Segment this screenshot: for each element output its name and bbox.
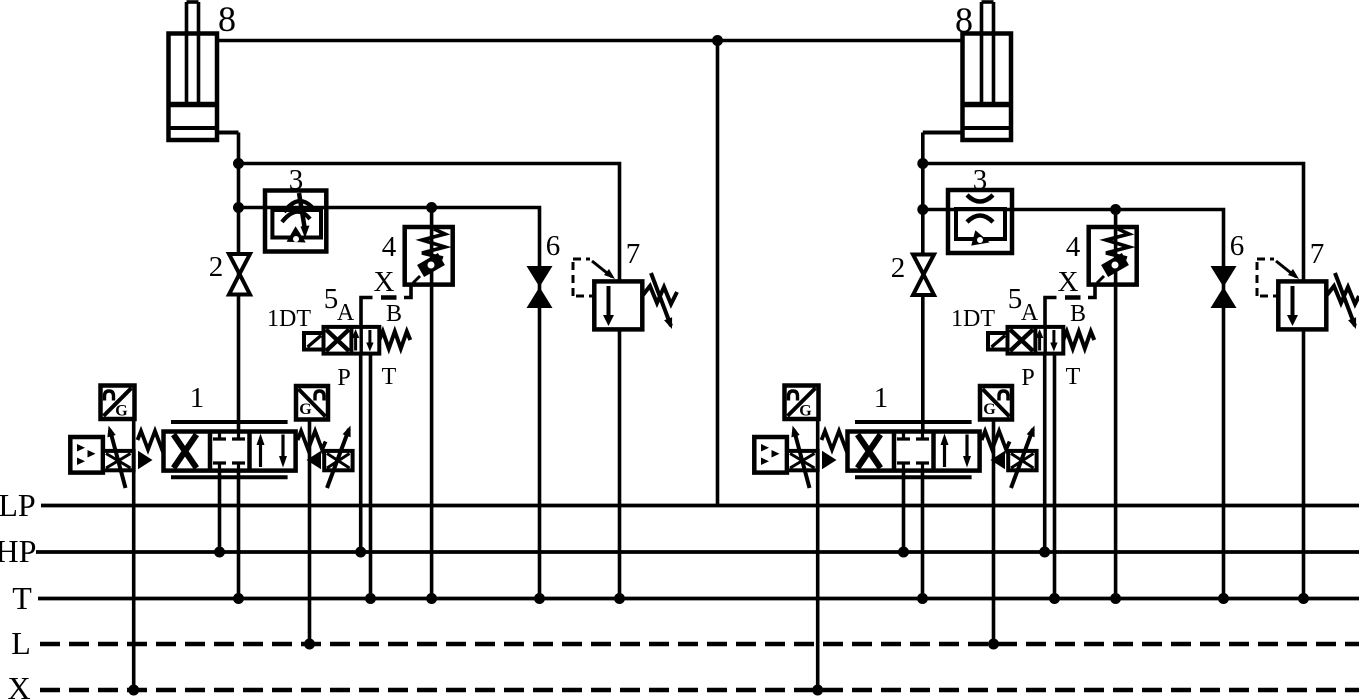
wire: right cylinder port column down to valve 1	[921, 133, 925, 432]
pilot operated check valve 4 (right)	[1089, 227, 1137, 285]
svg-text:2: 2	[891, 252, 906, 284]
svg-text:X: X	[7, 670, 30, 700]
svg-text:G: G	[299, 401, 312, 418]
junction on rod-side line	[712, 35, 723, 46]
svg-text:G: G	[115, 403, 128, 420]
one-way throttle valve 3 (left)	[265, 191, 326, 252]
svg-text:T: T	[382, 364, 397, 390]
svg-text:P: P	[1021, 365, 1034, 391]
svg-text:4: 4	[1066, 231, 1081, 263]
svg-text:B: B	[386, 301, 402, 327]
junction dots left column	[233, 158, 244, 169]
svg-text:7: 7	[1310, 238, 1325, 270]
bus line HP	[36, 550, 1359, 554]
wire: rod-side line linking both cylinders	[217, 39, 963, 43]
shutoff valve 2 (left)	[229, 254, 250, 295]
svg-text:A: A	[1021, 300, 1039, 326]
svg-text:1: 1	[190, 382, 205, 414]
shutoff valve 6 (left)	[527, 266, 553, 308]
one-way throttle valve 3 (right)	[948, 190, 1012, 253]
pilot line X from valve 5 to valve 4 (left)	[361, 285, 411, 327]
directional valve 1 (right)	[754, 386, 1036, 691]
directional valve 1 (left)	[70, 386, 352, 691]
junction dots right column	[917, 158, 928, 169]
svg-text:3: 3	[973, 164, 988, 196]
svg-text:7: 7	[626, 238, 641, 270]
wire: check valve 4 column	[430, 208, 434, 599]
relief valve 7 (right)	[1257, 259, 1359, 329]
svg-text:A: A	[337, 300, 355, 326]
svg-text:B: B	[1070, 301, 1086, 327]
shutoff valve 6 (right)	[1211, 266, 1237, 308]
wire: check valve 4 column (right)	[1114, 210, 1118, 599]
svg-text:8: 8	[218, 0, 236, 39]
svg-text:8: 8	[955, 0, 973, 40]
svg-text:T: T	[12, 580, 32, 616]
shutoff valve 2 (right)	[913, 255, 934, 296]
wire: left cylinder port column down to valve 1	[237, 133, 241, 432]
wire: right upper branch to relief valve 7	[923, 164, 1304, 599]
svg-text:3: 3	[289, 164, 304, 196]
solenoid valve 5 (left)	[304, 327, 410, 599]
svg-text:P: P	[337, 365, 350, 391]
svg-text:2: 2	[209, 251, 224, 283]
relief valve 7 (left)	[573, 259, 677, 329]
pilot line X from valve 5 to valve 4 (right)	[1045, 285, 1095, 327]
svg-text:X: X	[374, 266, 395, 298]
bus line T	[38, 597, 1359, 601]
svg-text:HP: HP	[0, 533, 36, 569]
svg-text:6: 6	[1230, 230, 1245, 262]
wire: right lower branch through valve 3 to valve 6	[923, 210, 1224, 599]
svg-text:1DT: 1DT	[267, 306, 311, 332]
svg-text:1DT: 1DT	[951, 306, 995, 332]
svg-text:LP: LP	[0, 487, 36, 523]
wire: left upper branch to relief valve 7	[239, 164, 620, 599]
wire: left lower branch through valve 3 to valve 6	[239, 208, 540, 599]
svg-text:1: 1	[874, 382, 889, 414]
cylinder 8 (left)	[169, 2, 239, 140]
svg-text:G: G	[799, 403, 812, 420]
bus line X (dashed)	[40, 688, 1359, 692]
svg-text:T: T	[1066, 364, 1081, 390]
cylinder 8 (right)	[923, 2, 1011, 140]
junction dots on buses (right half)	[812, 547, 1309, 696]
pilot operated check valve 4 (left)	[405, 227, 453, 285]
svg-text:G: G	[983, 401, 996, 418]
svg-text:6: 6	[546, 230, 561, 262]
solenoid valve 5 (right)	[988, 327, 1094, 599]
junction dots on buses (left half)	[128, 547, 625, 696]
bus line LP	[41, 504, 1359, 508]
svg-text:X: X	[1058, 266, 1079, 298]
svg-text:4: 4	[382, 231, 397, 263]
bus line L (dashed)	[40, 642, 1359, 646]
svg-text:L: L	[11, 625, 31, 661]
wire: tap down to LP	[716, 41, 720, 506]
